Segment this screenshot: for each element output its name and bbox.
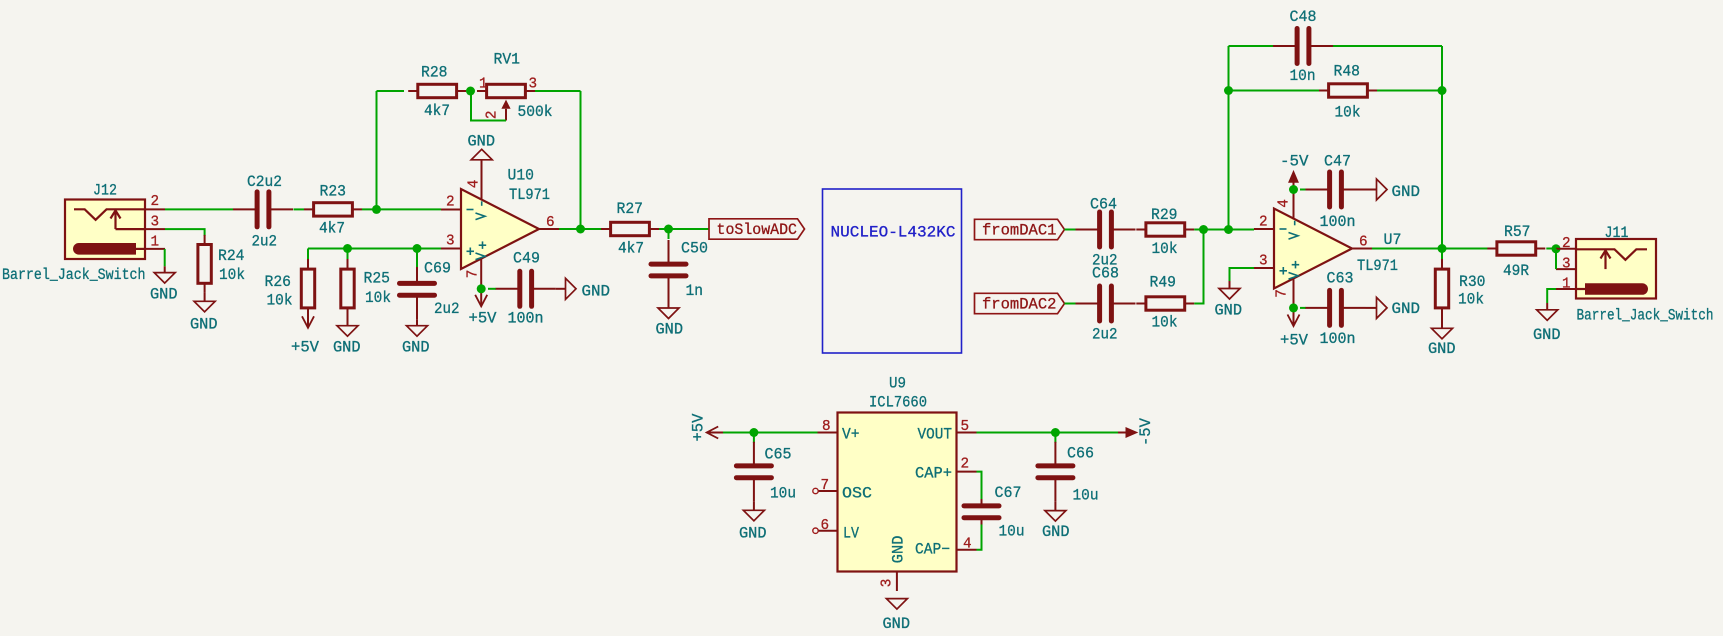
U9 pin6 LV [819, 530, 838, 532]
capacitor C50 [668, 240, 670, 262]
node C65 junction [749, 428, 758, 437]
J11 pin 3 [1556, 268, 1576, 270]
svg-text:R25: R25 [364, 270, 391, 288]
potentiometer RV1 [477, 90, 535, 92]
svg-text:U9: U9 [889, 375, 906, 393]
capacitor C63 [1306, 307, 1328, 309]
svg-text:GND: GND [883, 615, 911, 633]
wire pin7-C49 [488, 288, 496, 290]
resistor R57 [1487, 248, 1545, 250]
svg-text:2u2: 2u2 [252, 233, 278, 251]
resistor R29 [1136, 229, 1194, 231]
R30 gnd lead [1441, 309, 1443, 329]
svg-text:C67: C67 [995, 484, 1022, 502]
svg-text:2: 2 [1259, 215, 1268, 231]
wire J11 pin1 to gnd [1547, 289, 1556, 303]
node U7 pin7 junction [1289, 303, 1298, 312]
R26 +5V lead [307, 309, 309, 328]
svg-text:100n: 100n [508, 310, 544, 328]
svg-text:C47: C47 [1324, 153, 1351, 171]
resistor R26 [307, 260, 309, 318]
svg-text:CAP+: CAP+ [915, 465, 952, 483]
power +5V below U7 [1288, 315, 1300, 327]
svg-text:GND: GND [656, 321, 684, 339]
svg-text:R26: R26 [265, 273, 292, 291]
svg-text:+5V: +5V [291, 339, 320, 357]
capacitor C69 [416, 259, 418, 281]
resistor R23 [304, 208, 362, 210]
svg-text:C66: C66 [1067, 445, 1094, 463]
wire C48 top left [1229, 45, 1276, 47]
global label toSlowADC [709, 219, 805, 239]
svg-text:J12: J12 [93, 182, 117, 200]
capacitor C65 [753, 442, 755, 464]
ground below U9 [886, 599, 907, 610]
wire C48 right vertical [1441, 46, 1443, 249]
svg-text:VOUT: VOUT [918, 426, 953, 444]
svg-text:C49: C49 [513, 250, 540, 268]
svg-text:500k: 500k [518, 103, 553, 121]
resistor R24 [204, 235, 206, 293]
U7 pin4 line [1293, 181, 1295, 219]
svg-text:RV1: RV1 [494, 51, 521, 69]
svg-text:4: 4 [963, 537, 972, 553]
node R30 junction [1438, 244, 1447, 253]
svg-text:V+: V+ [842, 426, 860, 444]
svg-text:10u: 10u [1073, 487, 1099, 505]
svg-text:5: 5 [961, 419, 970, 435]
svg-text:10k: 10k [365, 289, 391, 307]
connector J11 [1576, 239, 1656, 299]
svg-text:10k: 10k [267, 292, 293, 310]
wire RV1.3 right [535, 90, 581, 92]
wire C50 down [668, 229, 670, 239]
wire C65 drop [753, 433, 755, 444]
capacitor C67 [981, 482, 983, 504]
svg-text:C68: C68 [1092, 265, 1119, 283]
svg-text:10k: 10k [1152, 314, 1178, 332]
svg-text:GND: GND [333, 339, 361, 357]
wire feedback top left [377, 90, 405, 92]
svg-text:R57: R57 [1504, 223, 1531, 241]
svg-text:+5V: +5V [1280, 332, 1309, 350]
svg-text:R27: R27 [617, 200, 644, 218]
node R48 right junction [1438, 86, 1447, 95]
J12 pin 1 [145, 248, 165, 250]
C63 gnd lead [1366, 307, 1377, 309]
svg-text:GND: GND [1042, 523, 1070, 541]
ground right of C47 [1377, 179, 1388, 200]
svg-text:C2u2: C2u2 [247, 173, 282, 191]
C66 gnd lead [1054, 502, 1056, 511]
node R25 junction [343, 244, 352, 253]
ground below C50 [658, 308, 679, 319]
node C66 junction [1051, 428, 1060, 437]
IC U9 ICL7660 [838, 413, 957, 572]
power +5V U10 [475, 295, 487, 307]
svg-text:2: 2 [961, 457, 970, 473]
svg-text:TL971: TL971 [509, 186, 550, 204]
capacitor C47 [1306, 189, 1328, 191]
wire C2u2-R23 [294, 208, 305, 210]
ground above U10 [471, 149, 492, 160]
power +5V below R26 [302, 316, 314, 328]
U9 pin7 OSC [819, 490, 838, 492]
svg-text:+5V: +5V [469, 310, 498, 328]
svg-text:R30: R30 [1459, 273, 1486, 291]
wire U9.2 to C67 [977, 472, 982, 499]
J12 pin 2 [145, 208, 165, 210]
svg-text:4k7: 4k7 [618, 240, 644, 258]
svg-text:3: 3 [1259, 254, 1268, 270]
svg-text:4: 4 [467, 180, 483, 189]
svg-text:GND: GND [1533, 326, 1561, 344]
svg-text:CAP−: CAP− [915, 541, 950, 559]
svg-text:U10: U10 [508, 167, 535, 185]
svg-text:7: 7 [1275, 289, 1291, 298]
svg-text:10n: 10n [1290, 67, 1316, 85]
wire pin7-C63 [1300, 307, 1306, 309]
ground below R25 [337, 326, 358, 337]
C49 to gnd lead [556, 288, 566, 290]
U9 pin8 V+ [818, 432, 838, 434]
U9 pin2 CAP+ [957, 471, 977, 473]
svg-text:NUCLEO-L432KC: NUCLEO-L432KC [831, 224, 956, 242]
power +5V left of U9 [707, 427, 719, 439]
node R27/C50 junction [664, 225, 673, 234]
svg-text:7: 7 [466, 270, 482, 279]
svg-text:6: 6 [821, 518, 830, 534]
svg-text:1: 1 [1562, 277, 1571, 293]
svg-text:GND: GND [890, 535, 908, 563]
svg-text:10u: 10u [770, 485, 796, 503]
svg-text:-5V: -5V [1137, 417, 1155, 446]
node R28-RV1 junction [466, 87, 475, 96]
svg-text:R48: R48 [1334, 63, 1361, 81]
wire R57-J11 [1546, 248, 1558, 250]
capacitor C49 [496, 288, 518, 290]
wire C69 drop [416, 249, 418, 268]
svg-text:C69: C69 [424, 260, 451, 278]
node pin2/feedback junction [372, 205, 381, 214]
svg-text:toSlowADC: toSlowADC [717, 221, 798, 239]
wire C48 top right [1333, 45, 1442, 47]
wire pin3 row [308, 248, 441, 250]
resistor R25 [347, 260, 349, 318]
node R49 riser junction [1199, 225, 1208, 234]
svg-text:2u2: 2u2 [434, 300, 460, 318]
ground right of C63 [1377, 297, 1388, 318]
wire J12 pin1 to gnd [164, 249, 166, 266]
capacitor C48 [1273, 45, 1295, 47]
resistor R27 [601, 228, 659, 230]
C69 gnd lead [416, 319, 418, 325]
wire C67 to U9.4 [977, 525, 982, 550]
wire U9.5 to -5V [977, 432, 1121, 434]
svg-text:OSC: OSC [842, 485, 872, 503]
svg-text:R29: R29 [1151, 206, 1178, 224]
svg-text:6: 6 [1359, 235, 1368, 251]
resistor R48 [1319, 90, 1377, 92]
U10 output wire [559, 228, 609, 230]
svg-text:2u2: 2u2 [1092, 326, 1118, 344]
wire fromDAC1-C64 [1065, 229, 1079, 231]
svg-text:C65: C65 [765, 446, 792, 464]
U7 pin7 line [1293, 278, 1295, 326]
wire R29-U7.2 [1194, 229, 1254, 231]
svg-text:U7: U7 [1384, 231, 1402, 249]
svg-text:GND: GND [1428, 340, 1456, 358]
svg-text:C48: C48 [1290, 8, 1317, 26]
U7 output wire [1372, 248, 1488, 250]
svg-text:49R: 49R [1503, 262, 1529, 280]
wire pin4-C47 [1300, 189, 1306, 191]
wire feedback vertical [1228, 46, 1230, 230]
op-amp U7 [1274, 209, 1352, 289]
svg-text:1: 1 [479, 77, 488, 93]
node J11 junction [1552, 244, 1561, 253]
node feedback junction [1224, 225, 1233, 234]
svg-text:R49: R49 [1150, 274, 1177, 292]
ground below C69 [407, 326, 428, 337]
svg-text:1: 1 [151, 235, 160, 251]
connector J12 [65, 200, 145, 260]
svg-text:2: 2 [485, 111, 501, 120]
svg-text:J11: J11 [1605, 224, 1629, 242]
ground right of C49 [566, 278, 577, 299]
svg-text:ICL7660: ICL7660 [869, 394, 927, 412]
ground J12 [154, 273, 175, 284]
svg-text:R23: R23 [320, 183, 347, 201]
svg-text:6: 6 [546, 215, 555, 231]
svg-text:1n: 1n [686, 282, 704, 300]
svg-text:100n: 100n [1320, 330, 1356, 348]
wire J12.2-C2u2 [165, 208, 233, 210]
J12 pin 3 [145, 228, 165, 230]
svg-text:GND: GND [150, 286, 178, 304]
svg-text:3: 3 [880, 579, 896, 588]
ground below C65 [743, 510, 764, 521]
node R48 left junction [1224, 86, 1233, 95]
wire R49 riser [1194, 230, 1203, 304]
ground below U7 pin3 [1219, 289, 1240, 300]
wire feedback left vertical [376, 91, 378, 209]
svg-text:GND: GND [1215, 302, 1243, 320]
wire R26 drop [307, 249, 309, 260]
svg-text:+5V: +5V [690, 413, 708, 442]
wire R25 drop [347, 249, 349, 260]
svg-text:TL971: TL971 [1357, 257, 1398, 275]
svg-text:Barrel_Jack_Switch: Barrel_Jack_Switch [2, 266, 146, 284]
op-amp U10 [461, 189, 539, 269]
svg-text:4k7: 4k7 [424, 102, 450, 120]
svg-text:10k: 10k [1458, 291, 1484, 309]
capacitor C2u2 [233, 208, 255, 210]
global label fromDAC1 [975, 219, 1065, 239]
svg-text:2: 2 [151, 194, 160, 210]
wire R23-U10.2 [362, 208, 441, 210]
wire U7 pin3 net [1230, 268, 1255, 281]
svg-text:4k7: 4k7 [319, 220, 345, 238]
svg-text:3: 3 [446, 234, 455, 250]
svg-text:8: 8 [822, 419, 831, 435]
wire C66 drop [1054, 433, 1056, 444]
svg-text:C63: C63 [1327, 270, 1354, 288]
svg-text:10k: 10k [1335, 104, 1361, 122]
C50 gnd lead [668, 300, 670, 308]
U10 pin7 line [480, 259, 482, 307]
node output junction [576, 225, 585, 234]
wire feedback right vertical [580, 91, 582, 229]
resistor R28 [408, 90, 466, 92]
svg-text:-5V: -5V [1280, 153, 1309, 171]
svg-text:fromDAC1: fromDAC1 [982, 222, 1057, 240]
ground below C66 [1045, 511, 1066, 521]
wire R27-label [659, 228, 709, 230]
capacitor C66 [1054, 442, 1056, 464]
U9 pin4 CAP- [957, 549, 977, 551]
svg-text:Barrel_Jack_Switch: Barrel_Jack_Switch [1577, 307, 1714, 325]
U9 pin3 GND [896, 572, 898, 592]
J11 pin 2 [1556, 248, 1576, 250]
wire R30 drop [1441, 249, 1443, 260]
svg-text:GND: GND [190, 316, 218, 334]
svg-text:R24: R24 [218, 247, 245, 265]
svg-text:7: 7 [821, 478, 830, 494]
power -5V right of U9 [1118, 432, 1126, 434]
wire R48 left [1229, 90, 1320, 92]
svg-text:10k: 10k [219, 266, 245, 284]
svg-text:100n: 100n [1320, 213, 1356, 231]
node U7 pin4 junction [1289, 185, 1298, 194]
svg-text:2: 2 [446, 195, 455, 211]
U10 pin4 line [481, 160, 483, 200]
svg-text:R28: R28 [421, 64, 448, 82]
wire +5V to U9.8 [707, 432, 723, 434]
R25 gnd lead [347, 309, 349, 326]
svg-text:4: 4 [1277, 199, 1293, 208]
wire J11 junction to pin3 [1555, 249, 1557, 269]
svg-text:GND: GND [739, 525, 767, 543]
svg-text:GND: GND [468, 133, 496, 151]
svg-text:LV: LV [843, 525, 860, 543]
svg-text:C50: C50 [681, 240, 708, 258]
R24 gnd lead [204, 293, 206, 301]
wire R48 right [1377, 90, 1442, 92]
ground J11 [1537, 310, 1558, 321]
svg-text:10u: 10u [999, 523, 1025, 541]
capacitor C68 [1076, 303, 1098, 305]
svg-text:GND: GND [1392, 300, 1421, 318]
ground below R24 [194, 301, 215, 312]
svg-text:GND: GND [582, 283, 611, 301]
resistor R30 [1441, 260, 1443, 318]
svg-text:3: 3 [151, 215, 160, 231]
C65 gnd lead [753, 502, 755, 511]
capacitor C64 [1076, 229, 1098, 231]
sheet NUCLEO-L432KC [823, 189, 962, 353]
svg-text:3: 3 [1562, 257, 1571, 273]
svg-text:10k: 10k [1152, 240, 1178, 258]
wire RV1 wiper to node [471, 95, 506, 121]
U9 pin5 VOUT [957, 432, 977, 434]
svg-text:2: 2 [1562, 236, 1571, 252]
node C69 junction [413, 244, 422, 253]
node U10 pin7 junction [477, 284, 486, 293]
resistor R49 [1136, 303, 1194, 305]
svg-text:fromDAC2: fromDAC2 [982, 296, 1057, 314]
svg-text:GND: GND [1392, 183, 1421, 201]
C47 gnd lead [1366, 189, 1377, 191]
global label fromDAC2 [975, 293, 1065, 313]
ground below R30 [1432, 328, 1453, 339]
J11 pin 1 [1556, 288, 1576, 290]
power -5V above U7 [1289, 171, 1298, 182]
wire fromDAC2-C68 [1065, 303, 1079, 305]
svg-text:GND: GND [402, 339, 430, 357]
svg-text:C64: C64 [1090, 196, 1117, 214]
wire J12 pin3 to R24 [165, 229, 205, 236]
